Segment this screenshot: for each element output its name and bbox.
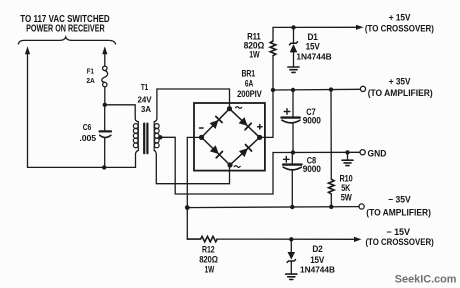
capacitor C8 [291,153,293,164]
node bridge bottom (~) [227,162,232,167]
fuse F1 [103,66,107,70]
-35V rail [187,207,359,208]
svg-text:820Ω: 820Ω [199,255,218,265]
node bridge top (~) [227,106,232,111]
node R10 bottom [329,205,333,209]
node + riser / +35V rail [271,88,275,92]
svg-text:(TO CROSSOVER): (TO CROSSOVER) [365,237,433,247]
wire AC input right (with up arrow) [104,53,106,66]
wire bridge + up to +35V rail and through R11 [260,56,273,138]
wire secondary top to bridge ~ top [154,89,229,122]
zener D2 [290,239,292,252]
svg-text:C6: C6 [83,123,92,132]
label plus [258,125,262,129]
svg-text:1N4744B: 1N4744B [300,266,335,275]
node R10 top [329,87,333,91]
svg-text:+ 15V: + 15V [389,12,411,22]
svg-text:15V: 15V [310,255,324,265]
wire secondary bottom to bridge ~ bottom [154,150,229,183]
svg-text:(TO AMPLIFIER): (TO AMPLIFIER) [366,207,431,217]
node junction C6 bottom [102,165,106,169]
svg-text:1N4744B: 1N4744B [296,52,332,61]
svg-text:9000: 9000 [303,115,321,125]
svg-text:5K: 5K [341,183,351,193]
bridge rectifier BR1 box [194,103,265,171]
capacitor C6 [104,105,106,131]
zener D1 [293,27,295,43]
svg-text:(TO CROSSOVER): (TO CROSSOVER) [365,23,434,33]
svg-text:− 15V: − 15V [386,227,410,237]
wire bridge - out and down [187,137,201,239]
label minus [200,127,204,129]
svg-text:2A: 2A [86,76,95,85]
node C8 bottom [290,205,294,209]
svg-text:T1: T1 [141,83,149,92]
resistor R11 [270,41,276,56]
transformer T1 secondary winding [153,122,155,151]
node D1 top [291,25,295,29]
capacitor C7 [292,90,294,117]
svg-text:F1: F1 [87,67,95,76]
svg-text:− 35V: − 35V [388,195,411,205]
terminal GND [360,150,365,155]
wire AC input left (with up arrow) [27,53,29,167]
svg-text:R12: R12 [202,244,215,254]
svg-text:GND: GND [368,148,387,158]
node -35V rail left [185,205,190,210]
ground D1 [288,66,299,68]
diode D-UR (top to plus) [239,117,252,130]
GND rail [273,151,360,153]
svg-text:3A: 3A [141,105,151,114]
ground GND [347,152,349,159]
svg-text:15V: 15V [306,41,320,51]
node junction fuse/C6/primary [103,103,107,107]
svg-text:24V: 24V [138,95,153,104]
diode D-LR (bottom to plus) [239,145,252,158]
svg-text:6A: 6A [245,78,254,88]
svg-text:5W: 5W [341,193,353,203]
node C7 top [291,88,295,92]
resistor R12 [187,236,217,241]
label ~ bottom [234,166,240,168]
-15V rail [217,238,354,240]
transformer core [143,124,145,154]
wire bottom-left: left AC line to primary bottom [28,150,139,167]
svg-text:SeekIC.com: SeekIC.com [395,274,457,286]
terminal +35V [360,86,365,91]
node D2 top [289,237,293,241]
label ~ top [236,107,242,109]
node bridge left (-) [199,135,204,140]
wire junction to transformer primary top [105,105,139,122]
terminal -35V [359,204,364,209]
svg-text:+ 35V: + 35V [389,76,411,86]
node ground stub [345,150,349,154]
+35V rail [273,88,360,91]
bridge diamond wires [202,109,260,165]
node bridge right (+) [257,135,262,140]
diode D-LL (minus to bottom) [210,145,223,158]
svg-text:POWER ON RECEIVER: POWER ON RECEIVER [26,23,105,34]
resistor R10 (from +35V rail to -35V rail) [330,90,332,180]
header label: TO 117 VAC SWITCHED POWER ON RECEIVER [20,14,109,34]
watermark SeekIC.com [395,274,457,286]
wire center tap to GND rail [160,137,273,194]
svg-text:D2: D2 [312,244,322,254]
svg-text:BR1: BR1 [242,69,256,79]
diode D-UL (minus to top) [210,116,223,129]
svg-text:9000: 9000 [303,164,321,174]
svg-text:(TO AMPLIFIER): (TO AMPLIFIER) [368,88,433,98]
brace under header [18,37,115,44]
svg-text:1W: 1W [205,264,215,274]
svg-text:1W: 1W [249,50,260,60]
node C7/C8 junction [291,150,295,154]
wire fuse to junction [104,87,106,105]
transformer T1 primary winding [137,122,139,151]
node center tap [158,135,162,139]
ground D2 [286,273,297,275]
svg-text:200PIV: 200PIV [237,89,262,99]
svg-text:.005: .005 [79,134,96,143]
+15V rail [273,26,357,28]
